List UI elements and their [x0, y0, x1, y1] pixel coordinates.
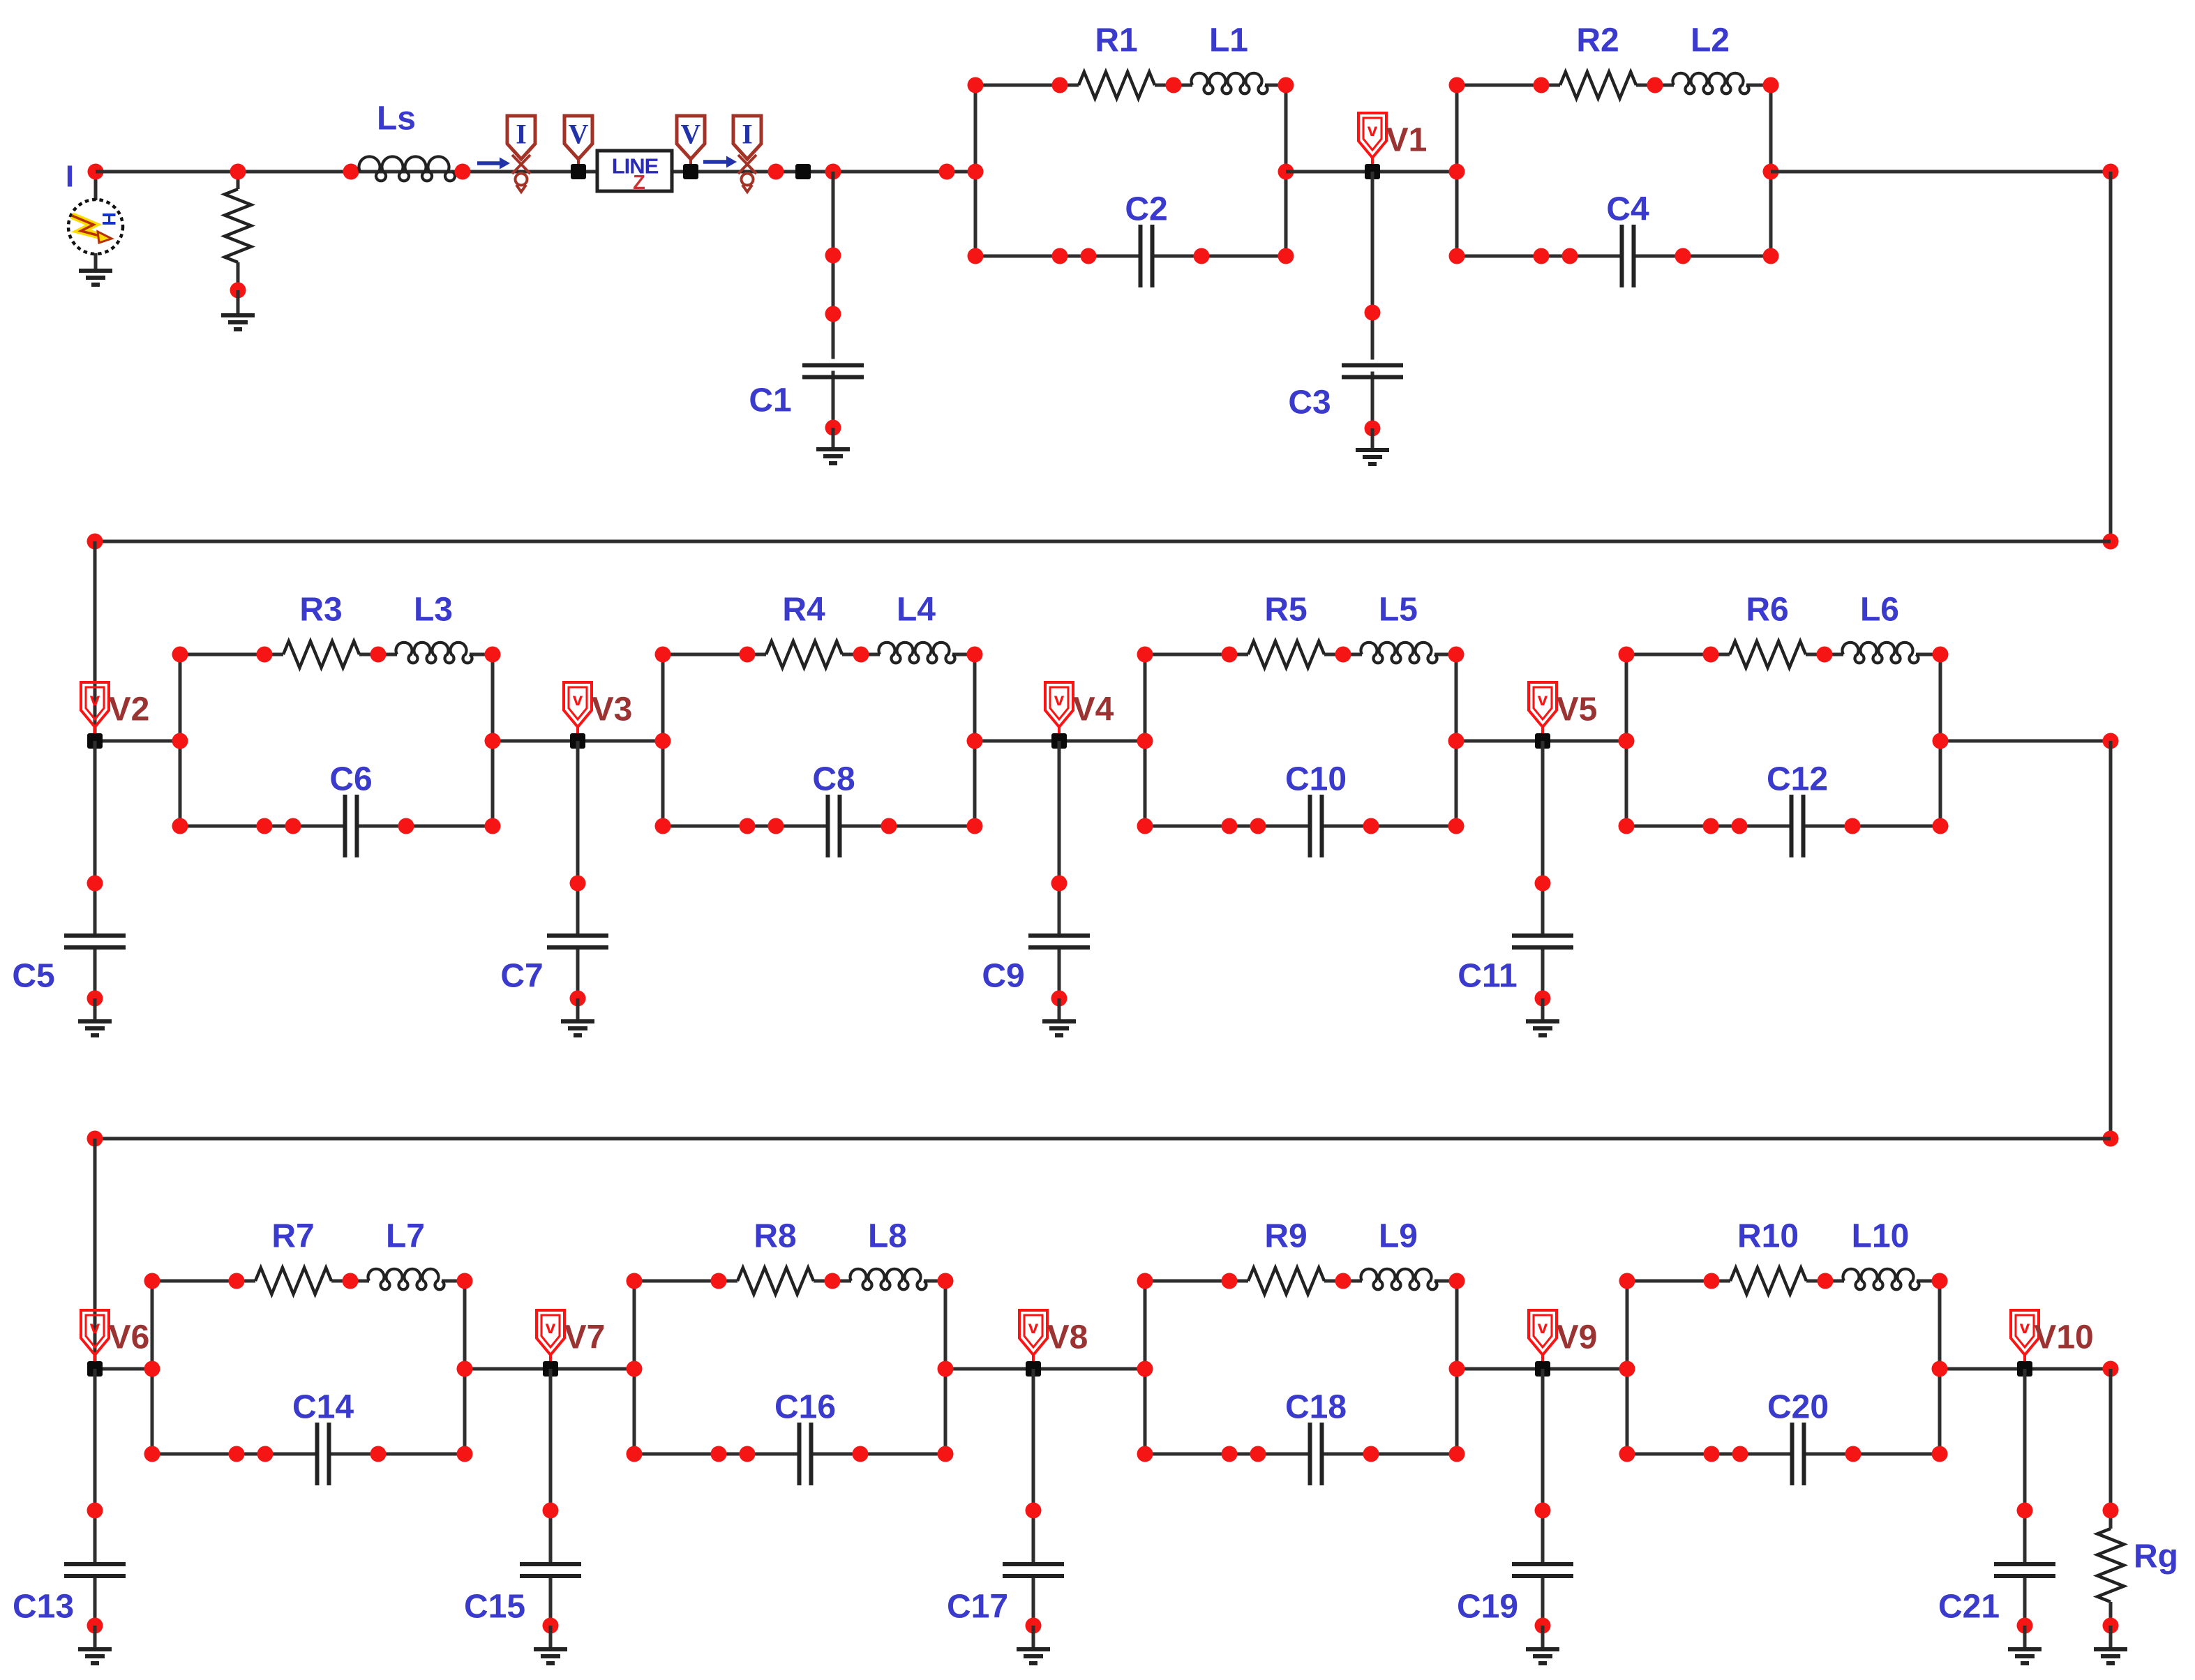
- wire: [359, 653, 397, 657]
- wire: row2 left drop: [93, 541, 97, 741]
- wire: [1806, 1280, 1844, 1283]
- wire: [1322, 1453, 1458, 1456]
- capacitor C1 (shunt to ground): [832, 172, 835, 359]
- wire: [633, 1281, 636, 1454]
- wire: [93, 998, 97, 1021]
- ground: [1526, 1649, 1559, 1663]
- voltage probe V9: [1529, 1310, 1557, 1369]
- ground: [1526, 1021, 1559, 1035]
- svg-text:v: v: [90, 1317, 100, 1337]
- voltage probe V3: [564, 682, 592, 741]
- svg-text:R10: R10: [1737, 1218, 1799, 1255]
- wire: [1804, 1453, 1940, 1456]
- svg-text:C14: C14: [292, 1389, 354, 1426]
- wire: [975, 84, 1079, 87]
- svg-text:V9: V9: [1557, 1319, 1598, 1356]
- wire: [663, 653, 766, 657]
- resistor Rg (ground lead): [2109, 1369, 2113, 1529]
- node dots of section R7: [144, 1273, 160, 1289]
- wire: [179, 654, 182, 826]
- wire: [180, 825, 345, 828]
- wire: row1 main line: [96, 170, 975, 174]
- svg-text:C10: C10: [1285, 761, 1347, 798]
- wire: [93, 947, 97, 998]
- wire: [94, 253, 98, 271]
- svg-text:Z: Z: [633, 172, 645, 194]
- current probe I (receiving end): [703, 156, 737, 168]
- wire: [634, 1280, 737, 1283]
- svg-text:C3: C3: [1288, 384, 1331, 421]
- svg-text:v: v: [573, 689, 583, 710]
- voltage probe V5: [1529, 682, 1557, 741]
- wire: [1457, 255, 1622, 258]
- inductor L8: [851, 1269, 927, 1289]
- wire: [1541, 998, 1545, 1021]
- voltage probe V4: [1045, 682, 1073, 741]
- wire: [842, 653, 880, 657]
- wire: [2023, 1626, 2027, 1649]
- wire: [1457, 84, 1560, 87]
- wire: [975, 255, 1141, 258]
- wire: [463, 1281, 467, 1454]
- wire: [94, 172, 98, 200]
- node dots of section R4: [655, 647, 671, 663]
- node dots of section R3: [172, 647, 188, 663]
- ground: [561, 1021, 594, 1035]
- wire: [1455, 85, 1459, 256]
- svg-text:C1: C1: [749, 382, 791, 419]
- voltage probe V8: [1019, 1310, 1047, 1369]
- voltage probe V10: [2011, 1310, 2039, 1369]
- svg-text:V3: V3: [592, 691, 633, 728]
- capacitor C20: [1790, 1423, 1795, 1485]
- wire: [93, 1369, 97, 1564]
- svg-text:C2: C2: [1125, 191, 1167, 228]
- capacitor C10: [1308, 795, 1312, 857]
- voltage probe V (receiving end): [677, 116, 705, 159]
- wire: [576, 741, 580, 936]
- node dots of section R8: [627, 1273, 643, 1289]
- svg-text:L2: L2: [1691, 22, 1730, 59]
- wire: [1032, 1576, 1035, 1626]
- wire: [1144, 1281, 1147, 1454]
- wire: [924, 1280, 945, 1283]
- wire: [2023, 1576, 2027, 1626]
- wire: [549, 1576, 553, 1626]
- resistor R7: [255, 1268, 331, 1294]
- svg-text:C11: C11: [1458, 958, 1517, 995]
- wire: [442, 1280, 465, 1283]
- svg-text:L4: L4: [897, 592, 936, 629]
- wire: [1058, 998, 1061, 1021]
- ground: [534, 1649, 567, 1663]
- wire: [1455, 654, 1458, 826]
- svg-text:L9: L9: [1379, 1218, 1418, 1255]
- svg-text:R1: R1: [1095, 22, 1137, 59]
- wire: [1286, 170, 1457, 174]
- svg-text:V6: V6: [109, 1319, 150, 1356]
- svg-text:C19: C19: [1457, 1589, 1518, 1626]
- wire: [180, 653, 283, 657]
- svg-text:v: v: [2020, 1317, 2030, 1337]
- node dots after line: [768, 164, 784, 180]
- wire: [1058, 947, 1061, 998]
- svg-text:C9: C9: [982, 958, 1024, 995]
- wire: [93, 1626, 97, 1649]
- wire: [1541, 741, 1545, 936]
- svg-text:C15: C15: [464, 1589, 525, 1626]
- svg-text:v: v: [1368, 119, 1378, 140]
- voltage probe V1: [1358, 113, 1386, 172]
- svg-text:C21: C21: [1938, 1589, 2000, 1626]
- svg-text:I: I: [66, 160, 74, 194]
- wire: [2023, 1369, 2027, 1564]
- svg-text:v: v: [1028, 1317, 1039, 1337]
- node dots of section R1: [968, 77, 984, 93]
- node dots of section R5: [1137, 647, 1153, 663]
- wire: [1155, 84, 1192, 87]
- svg-text:C17: C17: [947, 1589, 1008, 1626]
- inductor L10: [1843, 1269, 1919, 1289]
- svg-text:R7: R7: [271, 1218, 314, 1255]
- capacitor C8: [826, 795, 830, 857]
- wire: [1145, 825, 1310, 828]
- wire: [973, 654, 977, 826]
- wire: [1626, 825, 1792, 828]
- svg-text:L6: L6: [1860, 592, 1899, 629]
- inductor L7: [368, 1269, 444, 1289]
- wire: [1625, 654, 1628, 826]
- wire: row3 left drop: [93, 1139, 97, 1369]
- resistor R3: [283, 641, 359, 668]
- inductor Ls: [343, 164, 359, 180]
- wire: row3 node line: [95, 1367, 152, 1371]
- wire: [974, 85, 977, 256]
- resistor R10: [1730, 1268, 1806, 1294]
- wire: [151, 1281, 154, 1454]
- ground: [1017, 1649, 1050, 1663]
- svg-text:R4: R4: [782, 592, 825, 629]
- wire: [1541, 1369, 1545, 1564]
- wire: [952, 653, 975, 657]
- capacitor C3 (shunt to ground): [1371, 172, 1374, 360]
- svg-text:C16: C16: [774, 1389, 836, 1426]
- wire: [1032, 1626, 1035, 1649]
- svg-text:Rg: Rg: [2134, 1538, 2178, 1575]
- inductor L2: [1673, 73, 1749, 93]
- svg-text:V7: V7: [564, 1319, 606, 1356]
- LINE Z block (transmission line): [597, 151, 672, 191]
- svg-text:L5: L5: [1379, 592, 1418, 629]
- wire: [1058, 741, 1061, 936]
- wire: [814, 1280, 851, 1283]
- ground: [1042, 1021, 1076, 1035]
- wire: [491, 654, 495, 826]
- wire: [549, 1626, 553, 1649]
- svg-text:R8: R8: [754, 1218, 796, 1255]
- capacitor C12: [1790, 795, 1794, 857]
- wire: [661, 654, 665, 826]
- wire: [1541, 1576, 1545, 1626]
- resistor R4: [766, 641, 842, 668]
- svg-text:L1: L1: [1209, 22, 1248, 59]
- wire: [1804, 825, 1941, 828]
- wire: [1769, 85, 1773, 256]
- wire: [1145, 1453, 1310, 1456]
- ground: [78, 1649, 112, 1663]
- voltage probe V7: [537, 1310, 564, 1369]
- wire: [1626, 1281, 1629, 1454]
- capacitor C16: [797, 1423, 802, 1485]
- svg-text:v: v: [1538, 689, 1548, 710]
- wire: [1265, 84, 1286, 87]
- resistor R9: [1248, 1268, 1324, 1294]
- svg-text:L3: L3: [414, 592, 453, 629]
- ground: [78, 1021, 112, 1035]
- wire: [576, 947, 580, 998]
- resistor R2: [1560, 72, 1636, 98]
- node dots of section R2: [1449, 77, 1465, 93]
- wire: [1324, 1280, 1362, 1283]
- ground: [79, 271, 112, 285]
- voltage probe V (sending end): [564, 116, 592, 159]
- svg-text:V4: V4: [1073, 691, 1114, 728]
- wire: [1939, 654, 1942, 826]
- svg-text:L7: L7: [386, 1218, 425, 1255]
- capacitor C4: [1620, 225, 1624, 287]
- voltage probe V6: [81, 1310, 109, 1369]
- wire: row2 right drop to row3: [2109, 741, 2113, 1139]
- ground: [1356, 450, 1389, 464]
- node dots of section R9: [1137, 1273, 1153, 1289]
- inductor L6: [1843, 643, 1919, 663]
- resistor R8: [737, 1268, 814, 1294]
- svg-text:C4: C4: [1606, 191, 1649, 228]
- svg-text:L8: L8: [868, 1218, 907, 1255]
- capacitor C6: [343, 795, 347, 857]
- inductor L3: [396, 643, 472, 663]
- wire: row3 bus: [95, 1137, 2111, 1141]
- svg-text:C6: C6: [329, 761, 372, 798]
- wire: [1627, 1453, 1792, 1456]
- inductor L5: [1361, 643, 1437, 663]
- wire: [1144, 654, 1147, 826]
- wire: [1917, 1280, 1940, 1283]
- wire: [1916, 653, 1940, 657]
- ground: [2008, 1649, 2042, 1663]
- wire: [1627, 1280, 1730, 1283]
- wire: [152, 1280, 255, 1283]
- ground: [2094, 1649, 2127, 1663]
- wire: [549, 1369, 553, 1564]
- svg-text:C12: C12: [1767, 761, 1828, 798]
- node dots of section R6: [1619, 647, 1635, 663]
- svg-text:v: v: [1538, 1317, 1548, 1337]
- svg-text:V10: V10: [2034, 1319, 2093, 1356]
- svg-text:v: v: [90, 689, 100, 710]
- svg-text:H: H: [98, 212, 119, 226]
- wire: [1626, 653, 1730, 657]
- ground: [221, 315, 255, 329]
- resistor R6: [1730, 641, 1806, 668]
- wire: [1434, 1280, 1457, 1283]
- svg-text:V: V: [569, 119, 589, 150]
- wire: [1541, 1626, 1545, 1649]
- wire: [1324, 653, 1362, 657]
- wire: [1145, 1280, 1248, 1283]
- inductor L1: [1192, 73, 1268, 93]
- svg-text:Ls: Ls: [377, 100, 416, 137]
- wire: [1322, 825, 1457, 828]
- wire: [331, 1280, 369, 1283]
- svg-text:V5: V5: [1557, 691, 1598, 728]
- capacitor C14: [315, 1423, 320, 1485]
- wire: [1746, 84, 1771, 87]
- wire: [811, 1453, 946, 1456]
- svg-text:V: V: [681, 119, 701, 150]
- inductor L9: [1361, 1269, 1437, 1289]
- wire: row2 node line: [95, 740, 180, 743]
- svg-text:R6: R6: [1746, 592, 1788, 629]
- wire: [634, 1453, 800, 1456]
- svg-text:R5: R5: [1264, 592, 1307, 629]
- current probe I (sending end): [477, 158, 510, 170]
- resistor (source shunt): [237, 172, 240, 189]
- node dots of section R10: [1619, 1273, 1635, 1289]
- svg-text:R9: R9: [1264, 1218, 1307, 1255]
- svg-text:C13: C13: [13, 1589, 74, 1626]
- wire: [1145, 653, 1248, 657]
- svg-text:v: v: [1054, 689, 1065, 710]
- wire: [1455, 1281, 1459, 1454]
- voltage probe V2: [81, 682, 109, 741]
- svg-text:C8: C8: [812, 761, 855, 798]
- wire: [840, 825, 975, 828]
- svg-text:I: I: [742, 119, 753, 150]
- ground: [816, 449, 850, 463]
- wire: [1541, 947, 1545, 998]
- svg-text:C20: C20: [1767, 1389, 1829, 1426]
- wire: row1 to right edge: [1771, 170, 2111, 174]
- wire: [1284, 85, 1288, 256]
- wire: [1806, 653, 1843, 657]
- inductor L4: [879, 643, 955, 663]
- svg-text:V2: V2: [109, 691, 150, 728]
- capacitor C2: [1139, 225, 1143, 287]
- wire: [1434, 653, 1456, 657]
- wire: [1938, 1281, 1942, 1454]
- capacitor C18: [1308, 1423, 1312, 1485]
- svg-text:v: v: [546, 1317, 556, 1337]
- svg-text:L10: L10: [1852, 1218, 1910, 1255]
- wire: [1153, 255, 1287, 258]
- svg-text:V1: V1: [1386, 122, 1428, 159]
- wire: [1634, 255, 1771, 258]
- wire: [1032, 1369, 1035, 1564]
- node I (source terminal): [88, 164, 104, 180]
- svg-text:R3: R3: [299, 592, 342, 629]
- wire: [357, 825, 493, 828]
- wire: [576, 998, 580, 1021]
- svg-text:C18: C18: [1285, 1389, 1347, 1426]
- wire: [329, 1453, 465, 1456]
- wire: right drop to row2: [2109, 172, 2113, 541]
- svg-text:R2: R2: [1576, 22, 1619, 59]
- wire: [1636, 84, 1674, 87]
- svg-text:V8: V8: [1047, 1319, 1088, 1356]
- svg-text:C5: C5: [12, 958, 54, 995]
- wire: [944, 1281, 947, 1454]
- wire: [93, 741, 97, 936]
- resistor R5: [1248, 641, 1324, 668]
- resistor R1: [1079, 72, 1155, 98]
- wire: [93, 1576, 97, 1626]
- svg-text:I: I: [516, 119, 527, 150]
- wire: [470, 653, 493, 657]
- wire: [663, 825, 828, 828]
- wire: [152, 1453, 317, 1456]
- svg-text:C7: C7: [500, 958, 543, 995]
- wire: row2 bus: [95, 540, 2111, 543]
